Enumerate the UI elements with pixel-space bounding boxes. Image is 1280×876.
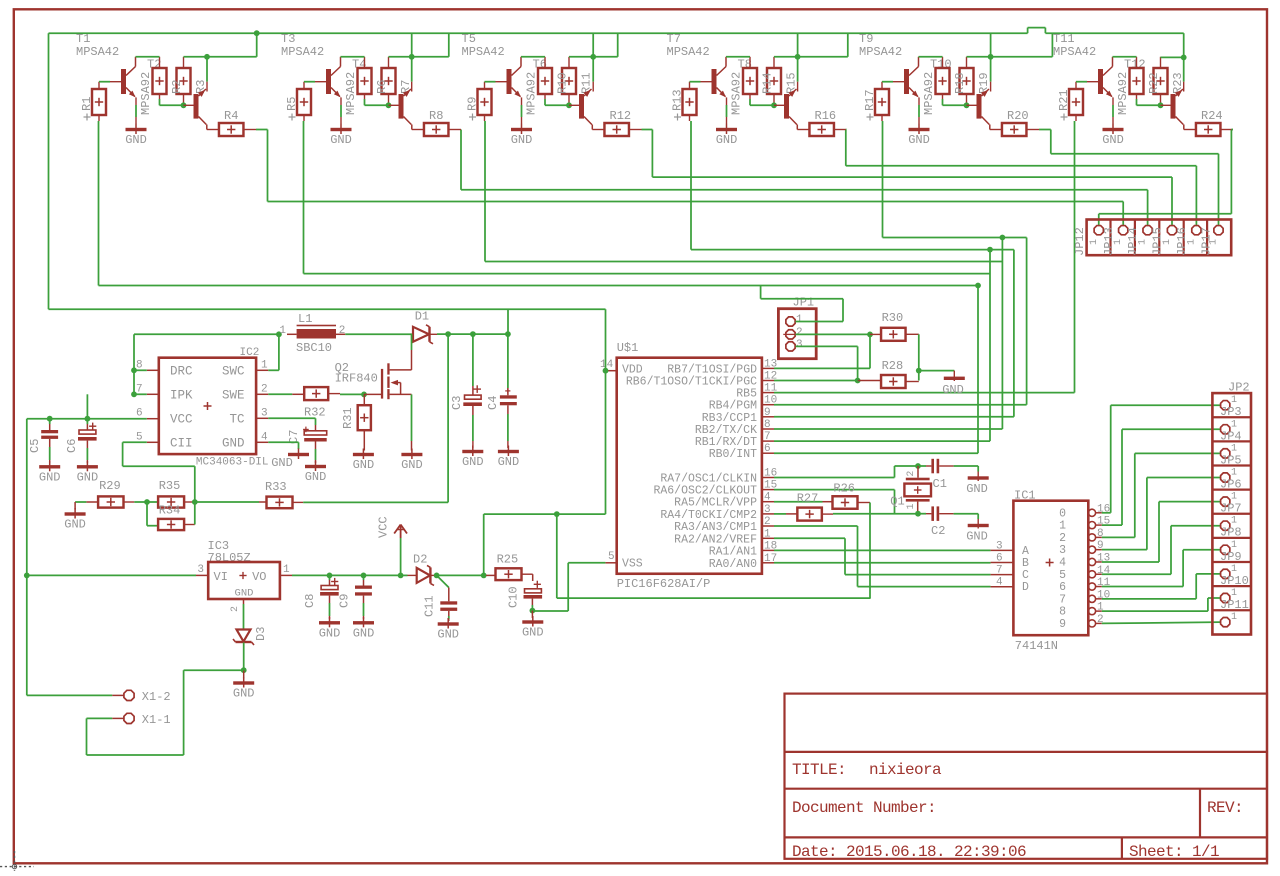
svg-text:R17: R17 xyxy=(863,89,877,111)
svg-text:nixieora: nixieora xyxy=(869,761,942,779)
svg-text:RB2/TX/CK: RB2/TX/CK xyxy=(695,424,757,437)
svg-text:RA4/T0CKI/CMP2: RA4/T0CKI/CMP2 xyxy=(660,509,757,522)
svg-text:X1-2: X1-2 xyxy=(142,690,171,704)
svg-text:R26: R26 xyxy=(833,482,855,496)
svg-text:RA5/MCLR/VPP: RA5/MCLR/VPP xyxy=(674,497,757,510)
svg-text:RB0/INT: RB0/INT xyxy=(709,448,757,461)
svg-text:R30: R30 xyxy=(882,311,904,325)
svg-text:B: B xyxy=(1022,557,1029,570)
svg-text:IC2: IC2 xyxy=(240,347,260,359)
svg-text:R1: R1 xyxy=(80,97,94,111)
svg-text:JP9: JP9 xyxy=(1220,550,1242,564)
svg-text:1: 1 xyxy=(1113,239,1124,245)
svg-text:1: 1 xyxy=(283,564,290,576)
svg-text:JP7: JP7 xyxy=(1220,502,1242,516)
svg-text:R10: R10 xyxy=(556,72,570,94)
svg-text:JP8: JP8 xyxy=(1220,526,1242,540)
svg-text:GND: GND xyxy=(942,383,964,397)
svg-text:74141N: 74141N xyxy=(1015,639,1058,653)
svg-text:VCC: VCC xyxy=(170,413,193,427)
svg-text:4: 4 xyxy=(764,492,771,504)
svg-text:GND: GND xyxy=(498,455,520,469)
svg-text:GND: GND xyxy=(462,455,484,469)
svg-text:JP6: JP6 xyxy=(1220,478,1242,492)
svg-text:R33: R33 xyxy=(265,480,287,494)
svg-text:MPSA92: MPSA92 xyxy=(344,72,358,115)
svg-text:MPSA92: MPSA92 xyxy=(730,72,744,115)
svg-text:GND: GND xyxy=(77,470,99,484)
svg-text:SBC10: SBC10 xyxy=(296,341,332,355)
svg-text:C1: C1 xyxy=(933,477,947,491)
svg-text:GND: GND xyxy=(271,456,293,470)
svg-text:RA2/AN2/VREF: RA2/AN2/VREF xyxy=(674,533,757,546)
svg-text:R14: R14 xyxy=(761,72,775,94)
svg-text:CII: CII xyxy=(170,436,193,450)
svg-text:R12: R12 xyxy=(610,109,632,123)
svg-text:C6: C6 xyxy=(65,439,79,453)
svg-text:R34: R34 xyxy=(159,504,181,518)
svg-text:1: 1 xyxy=(1231,612,1237,623)
svg-text:1: 1 xyxy=(1209,239,1220,245)
svg-text:R24: R24 xyxy=(1201,109,1223,123)
svg-text:R29: R29 xyxy=(99,479,121,493)
svg-text:JP10: JP10 xyxy=(1220,574,1249,588)
svg-text:RB5: RB5 xyxy=(736,388,757,401)
svg-text:7: 7 xyxy=(764,431,771,443)
svg-text:R27: R27 xyxy=(797,492,819,506)
svg-text:JP12: JP12 xyxy=(1073,227,1087,256)
svg-text:2: 2 xyxy=(1059,532,1066,545)
svg-text:7: 7 xyxy=(996,565,1003,577)
svg-text:TC: TC xyxy=(229,412,244,426)
svg-text:GND: GND xyxy=(966,482,988,496)
svg-text:C10: C10 xyxy=(507,586,521,608)
svg-text:T11: T11 xyxy=(1053,32,1075,46)
svg-text:8: 8 xyxy=(1059,606,1066,619)
svg-text:D: D xyxy=(1022,581,1029,594)
svg-text:VCC: VCC xyxy=(377,516,391,538)
svg-text:X1-1: X1-1 xyxy=(142,713,171,727)
svg-text:RB6/T1OSO/T1CKI/PGC: RB6/T1OSO/T1CKI/PGC xyxy=(626,376,757,389)
svg-text:Document Number:: Document Number: xyxy=(792,799,936,817)
svg-text:R9: R9 xyxy=(466,97,480,111)
svg-text:8: 8 xyxy=(764,419,771,431)
svg-text:GND: GND xyxy=(305,470,327,484)
svg-text:R6: R6 xyxy=(375,80,389,94)
svg-text:MPSA42: MPSA42 xyxy=(1053,45,1096,59)
svg-text:4: 4 xyxy=(1059,556,1066,569)
svg-text:IPK: IPK xyxy=(170,388,193,402)
svg-text:3: 3 xyxy=(796,339,803,351)
svg-text:C9: C9 xyxy=(338,594,352,608)
svg-text:3: 3 xyxy=(261,407,268,419)
svg-text:GND: GND xyxy=(716,133,738,147)
svg-text:IC1: IC1 xyxy=(1014,489,1036,503)
svg-text:RA0/AN0: RA0/AN0 xyxy=(709,558,757,571)
svg-text:GND: GND xyxy=(437,628,459,642)
svg-text:5: 5 xyxy=(608,551,615,563)
svg-text:2: 2 xyxy=(261,383,268,395)
svg-text:1: 1 xyxy=(261,359,268,371)
svg-text:6: 6 xyxy=(1059,581,1066,594)
svg-text:Sheet: 1/1: Sheet: 1/1 xyxy=(1129,843,1219,861)
svg-text:1: 1 xyxy=(1162,239,1173,245)
svg-text:1: 1 xyxy=(764,528,771,540)
svg-text:R16: R16 xyxy=(815,109,837,123)
svg-text:DRC: DRC xyxy=(170,364,193,378)
svg-text:PIC16F628AI/P: PIC16F628AI/P xyxy=(617,577,711,591)
svg-text:MPSA42: MPSA42 xyxy=(667,45,710,59)
svg-text:2: 2 xyxy=(906,471,917,477)
svg-text:JP5: JP5 xyxy=(1220,453,1242,467)
svg-text:5: 5 xyxy=(1059,569,1066,582)
svg-text:R18: R18 xyxy=(953,72,967,94)
svg-text:1: 1 xyxy=(1089,239,1100,245)
svg-text:Q1: Q1 xyxy=(890,495,904,509)
svg-text:C3: C3 xyxy=(450,396,464,410)
svg-text:R20: R20 xyxy=(1007,109,1029,123)
svg-text:C4: C4 xyxy=(486,396,500,410)
svg-text:MPSA42: MPSA42 xyxy=(76,45,119,59)
svg-text:R11: R11 xyxy=(580,72,594,94)
svg-text:R32: R32 xyxy=(304,406,326,420)
svg-text:JP3: JP3 xyxy=(1220,405,1242,419)
svg-text:T5: T5 xyxy=(462,32,476,46)
svg-text:R22: R22 xyxy=(1147,72,1161,94)
svg-text:U$1: U$1 xyxy=(617,341,639,355)
svg-text:L1: L1 xyxy=(298,312,312,326)
svg-text:JP11: JP11 xyxy=(1220,598,1249,612)
svg-text:RB3/CCP1: RB3/CCP1 xyxy=(702,412,757,425)
svg-text:SWC: SWC xyxy=(222,364,245,378)
svg-text:1: 1 xyxy=(796,314,803,326)
svg-text:C11: C11 xyxy=(423,595,437,617)
svg-text:GND: GND xyxy=(511,133,533,147)
svg-text:9: 9 xyxy=(764,407,771,419)
svg-text:D2: D2 xyxy=(413,553,427,567)
svg-text:4: 4 xyxy=(261,431,268,443)
svg-text:GND: GND xyxy=(233,687,255,701)
svg-text:JP2: JP2 xyxy=(1228,381,1250,395)
svg-text:1: 1 xyxy=(1059,520,1066,533)
svg-text:R5: R5 xyxy=(285,97,299,111)
svg-text:RA1/AN1: RA1/AN1 xyxy=(709,545,757,558)
svg-text:GND: GND xyxy=(522,626,544,640)
svg-text:REV:: REV: xyxy=(1207,799,1243,817)
svg-text:Date: 2015.06.18. 22:39:06: Date: 2015.06.18. 22:39:06 xyxy=(792,843,1026,861)
svg-text:VDD: VDD xyxy=(622,364,643,377)
svg-text:3: 3 xyxy=(764,504,771,516)
svg-text:2: 2 xyxy=(764,516,771,528)
svg-text:TITLE:: TITLE: xyxy=(792,761,846,779)
svg-text:1: 1 xyxy=(906,503,917,509)
svg-text:3: 3 xyxy=(197,564,204,576)
svg-text:1: 1 xyxy=(1186,239,1197,245)
svg-text:IRF840: IRF840 xyxy=(335,372,378,386)
svg-text:RB1/RX/DT: RB1/RX/DT xyxy=(695,436,757,449)
svg-text:MPSA92: MPSA92 xyxy=(139,72,153,115)
svg-text:R21: R21 xyxy=(1057,89,1071,111)
svg-text:MPSA92: MPSA92 xyxy=(922,72,936,115)
svg-text:T3: T3 xyxy=(281,32,295,46)
svg-text:3: 3 xyxy=(996,540,1003,552)
svg-text:3: 3 xyxy=(1059,544,1066,557)
svg-text:R15: R15 xyxy=(785,72,799,94)
svg-text:GND: GND xyxy=(235,588,254,600)
svg-text:SWE: SWE xyxy=(222,388,245,402)
svg-text:GND: GND xyxy=(908,133,930,147)
svg-text:GND: GND xyxy=(222,436,245,450)
svg-text:A: A xyxy=(1022,545,1029,558)
svg-text:MPSA92: MPSA92 xyxy=(525,72,539,115)
svg-text:R28: R28 xyxy=(882,359,904,373)
svg-text:RA7/OSC1/CLKIN: RA7/OSC1/CLKIN xyxy=(660,473,757,486)
svg-text:6: 6 xyxy=(764,443,771,455)
svg-text:R4: R4 xyxy=(224,109,238,123)
svg-text:GND: GND xyxy=(64,518,86,532)
svg-text:1: 1 xyxy=(279,325,286,337)
svg-text:JP1: JP1 xyxy=(793,296,815,310)
svg-text:RA6/OSC2/CLKOUT: RA6/OSC2/CLKOUT xyxy=(653,485,757,498)
svg-text:T1: T1 xyxy=(76,32,90,46)
svg-text:9: 9 xyxy=(1059,618,1066,631)
svg-text:C8: C8 xyxy=(303,594,317,608)
svg-text:GND: GND xyxy=(319,626,341,640)
svg-text:D3: D3 xyxy=(254,627,268,641)
svg-text:2: 2 xyxy=(796,327,803,339)
svg-text:JP4: JP4 xyxy=(1220,429,1242,443)
svg-text:R31: R31 xyxy=(341,407,355,429)
svg-text:GND: GND xyxy=(353,458,375,472)
svg-text:C5: C5 xyxy=(28,439,42,453)
svg-text:GND: GND xyxy=(353,626,375,640)
svg-text:T9: T9 xyxy=(859,32,873,46)
svg-text:MPSA92: MPSA92 xyxy=(1116,72,1130,115)
svg-text:GND: GND xyxy=(966,530,988,544)
svg-text:GND: GND xyxy=(401,458,423,472)
svg-text:GND: GND xyxy=(330,133,352,147)
svg-text:2: 2 xyxy=(339,325,346,337)
svg-text:MC34063-DIL: MC34063-DIL xyxy=(196,457,269,469)
svg-text:R19: R19 xyxy=(977,72,991,94)
svg-text:RA3/AN3/CMP1: RA3/AN3/CMP1 xyxy=(674,521,757,534)
svg-text:1: 1 xyxy=(1138,239,1149,245)
svg-text:R2: R2 xyxy=(170,80,184,94)
svg-text:0: 0 xyxy=(1059,507,1066,520)
svg-text:R8: R8 xyxy=(429,109,443,123)
svg-text:C2: C2 xyxy=(931,524,945,538)
svg-text:VSS: VSS xyxy=(622,558,643,571)
svg-text:7: 7 xyxy=(1059,593,1066,606)
svg-text:GND: GND xyxy=(39,470,61,484)
svg-text:C: C xyxy=(1022,569,1029,582)
svg-text:GND: GND xyxy=(1102,133,1124,147)
svg-text:T7: T7 xyxy=(667,32,681,46)
svg-text:4: 4 xyxy=(996,577,1003,589)
svg-text:MPSA42: MPSA42 xyxy=(859,45,902,59)
svg-text:GND: GND xyxy=(125,133,147,147)
svg-text:RB7/T1OSI/PGD: RB7/T1OSI/PGD xyxy=(667,363,757,376)
svg-text:MPSA42: MPSA42 xyxy=(462,45,505,59)
svg-text:D1: D1 xyxy=(415,310,429,324)
svg-text:R13: R13 xyxy=(671,89,685,111)
svg-text:R25: R25 xyxy=(497,553,519,567)
svg-text:VI: VI xyxy=(214,570,228,584)
svg-text:R35: R35 xyxy=(159,479,181,493)
svg-text:RB4/PGM: RB4/PGM xyxy=(709,400,757,413)
svg-text:2: 2 xyxy=(230,606,241,612)
svg-text:6: 6 xyxy=(996,553,1003,565)
svg-text:VO: VO xyxy=(252,570,266,584)
svg-text:MPSA42: MPSA42 xyxy=(281,45,324,59)
